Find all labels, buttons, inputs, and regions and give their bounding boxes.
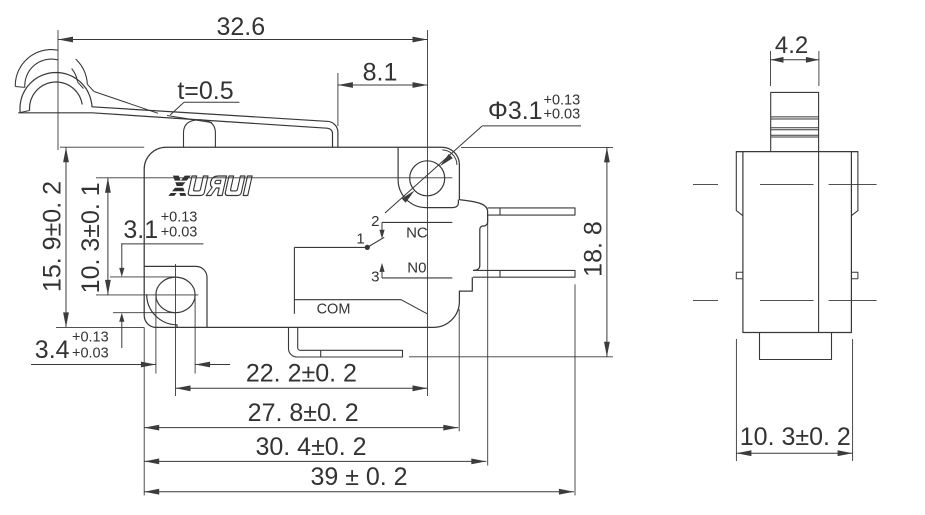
NC contact wire <box>382 221 452 223</box>
svg-text:Φ3.1: Φ3.1 <box>488 97 543 125</box>
extension x=459 down <box>458 309 460 431</box>
hole centerline vertical (x=175.5) <box>175 264 177 396</box>
dim 39±0.2 <box>144 491 574 493</box>
mounting hole top-right (Ф3.1) <box>410 161 445 196</box>
leader to hole <box>385 126 482 213</box>
side body right bump <box>851 272 858 279</box>
mounting boss top-right <box>398 147 458 207</box>
lever second-position line <box>94 92 158 114</box>
schematic COM plate <box>293 247 295 313</box>
hole centerline vertical (x=427.5) <box>427 30 429 396</box>
dim 10.3±0.2 (side) <box>736 452 852 454</box>
dim 8.1 <box>338 84 428 86</box>
svg-text:8.1: 8.1 <box>363 59 398 87</box>
hole centerline horizontal (bottom-left) <box>96 294 198 296</box>
side centerline upper <box>693 183 718 185</box>
lever hook curl (solid position) <box>20 73 92 113</box>
NO contact wire <box>382 277 452 279</box>
dim 10.3±0.2 extensions <box>735 339 737 461</box>
side centerline lower <box>693 299 718 301</box>
svg-text:10. 3±0. 1: 10. 3±0. 1 <box>77 182 105 293</box>
svg-text:27. 8±0. 2: 27. 8±0. 2 <box>248 399 359 427</box>
lever hook curl (released position, broken) <box>15 50 58 87</box>
svg-text:+0.03: +0.03 <box>72 346 109 362</box>
plunger grooves <box>771 116 819 118</box>
svg-text:+0.13: +0.13 <box>72 330 109 346</box>
extension x=487.7 down <box>487 215 489 465</box>
svg-text:30. 4±0. 2: 30. 4±0. 2 <box>255 433 366 461</box>
extension body-left down <box>143 327 145 495</box>
terminal COM pin (bent, bottom) <box>289 327 403 357</box>
svg-text:COM: COM <box>317 302 351 318</box>
body top-right boss inner arc <box>442 150 457 165</box>
terminal NO pin <box>473 270 575 277</box>
svg-text:39 ± 0. 2: 39 ± 0. 2 <box>310 463 407 491</box>
dim 15.9±0.2 <box>65 147 67 327</box>
svg-text:15. 9±0. 2: 15. 9±0. 2 <box>39 181 67 292</box>
node 1 contact dot <box>365 245 370 250</box>
dim 18.8 <box>606 147 608 356</box>
lever arm (solid, free position) <box>92 107 338 147</box>
dim 30.4±0.2 <box>144 460 486 462</box>
schematic wire from COM <box>294 246 367 248</box>
side view bottom protrusion <box>760 333 832 360</box>
hole side extension lines <box>155 295 157 374</box>
switch body outline (front view) <box>144 147 487 327</box>
svg-text:22. 2±0. 2: 22. 2±0. 2 <box>246 360 357 388</box>
hole centerline horizontal (top-right) <box>386 177 452 179</box>
svg-text:18. 8: 18. 8 <box>580 221 608 277</box>
NC contact arrow <box>381 222 383 230</box>
dim 8.1 extension <box>337 73 339 126</box>
XURUI logo <box>168 176 252 196</box>
dim 10.3±0.1 <box>107 178 109 295</box>
NO contact arrow <box>381 271 383 278</box>
svg-text:1: 1 <box>356 231 364 248</box>
plunger (front view) <box>184 120 216 147</box>
dim 27.8±0.2 <box>144 427 458 429</box>
dim 4.2 <box>771 59 819 61</box>
dim 10.3 extension top <box>96 177 386 179</box>
svg-text:32.6: 32.6 <box>216 13 265 41</box>
svg-text:4.2: 4.2 <box>775 32 808 59</box>
terminal NC pin <box>488 208 575 215</box>
svg-text:+0.03: +0.03 <box>161 225 198 241</box>
svg-text:+0.13: +0.13 <box>161 210 198 226</box>
svg-text:t=0.5: t=0.5 <box>177 77 233 105</box>
mounting boss bottom-left <box>144 266 207 327</box>
switch blade 1-2 <box>367 237 384 247</box>
dim 15.9 extensions <box>60 146 144 148</box>
extension x=575 down <box>574 284 576 495</box>
svg-text:3.4: 3.4 <box>35 336 70 364</box>
dim 32.6 <box>58 39 428 41</box>
svg-text:2: 2 <box>371 213 379 230</box>
svg-text:10. 3±0. 2: 10. 3±0. 2 <box>740 423 851 451</box>
side view plunger <box>771 92 819 151</box>
dim 3.1 arrows <box>121 244 123 268</box>
svg-text:N0: N0 <box>407 259 426 276</box>
dim 3.4 <box>31 364 156 366</box>
side view parting line <box>818 152 820 333</box>
side body right tab <box>851 152 858 216</box>
dim 32.6 extension left <box>57 30 59 150</box>
hole top/bottom extension lines <box>110 276 176 278</box>
mounting hole bottom-left (3.4 x 3.1 slot) <box>156 277 195 313</box>
dim 22.2±0.2 <box>176 387 428 389</box>
side view body <box>736 152 858 333</box>
svg-text:+0.03: +0.03 <box>544 107 581 123</box>
side body left bump <box>736 272 743 279</box>
dim 4.2 extensions <box>770 51 772 86</box>
side body left tab <box>736 152 743 216</box>
dim 18.8 extensions <box>461 146 613 148</box>
lever bottom line to hook tip <box>18 112 92 114</box>
svg-text:NC: NC <box>406 224 428 241</box>
svg-text:3: 3 <box>371 269 379 286</box>
svg-text:3.1: 3.1 <box>123 216 158 244</box>
